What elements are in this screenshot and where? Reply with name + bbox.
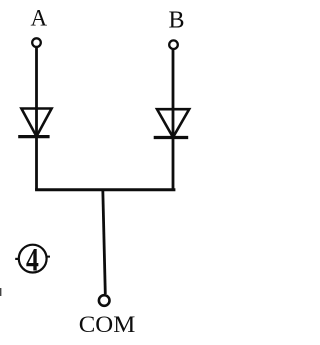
diode D2 (branch B, anode top, cathode to bus) [154, 109, 190, 137]
figure number: circled 4 [15, 243, 50, 279]
terminal COM [99, 295, 110, 306]
svg-text:B: B [168, 7, 184, 33]
svg-text:COM: COM [79, 312, 136, 338]
svg-text:4: 4 [26, 243, 39, 279]
scan artifact at left edge [0, 288, 1, 296]
wire: terminal B down to bus [172, 50, 175, 191]
svg-text:A: A [30, 5, 47, 30]
terminal A [32, 38, 41, 47]
wire: terminal A down to bus [35, 48, 38, 191]
wire: bottom bus joining both branches [35, 188, 175, 191]
wire: bus center tap down to COM terminal [103, 190, 106, 295]
terminal B [169, 40, 178, 49]
diode D1 (branch A, anode top, cathode to bus) [18, 109, 51, 137]
